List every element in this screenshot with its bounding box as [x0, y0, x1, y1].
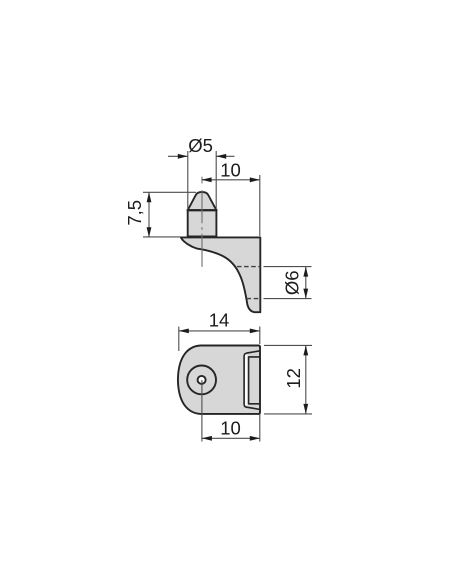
- svg-text:10: 10: [220, 417, 241, 438]
- arrowhead O6 up: [303, 267, 308, 277]
- dimension 7,5: extension + dimension lines: [143, 192, 196, 237]
- svg-text:Ø6: Ø6: [282, 270, 303, 295]
- arrowhead 10 top right: [250, 177, 260, 182]
- cone base line: [187, 209, 218, 211]
- dimension O5: extension + dimension lines: [168, 151, 235, 209]
- bracket body (side profile): [181, 237, 260, 312]
- dimension 14: extension + dimension lines: [179, 327, 260, 352]
- pin circle (top view): [187, 366, 216, 395]
- dimension 10 (bottom): extension + dimension lines: [202, 415, 260, 442]
- extension stub above pin: [201, 177, 203, 184]
- arrowhead 12 down: [303, 404, 308, 414]
- arrowhead O5 right: [216, 154, 226, 159]
- arrowhead 10 top left: [202, 177, 212, 182]
- pin centerline: [201, 190, 203, 267]
- arrowhead 14 left: [179, 329, 189, 334]
- arrowhead 12 up: [303, 345, 308, 355]
- arrowhead 10 bottom right: [250, 436, 260, 441]
- hidden line hole top: [237, 266, 260, 268]
- hidden line hole bottom: [247, 298, 261, 300]
- svg-text:Ø5: Ø5: [188, 135, 213, 156]
- svg-text:7,5: 7,5: [124, 200, 145, 226]
- dimension 12: extension + dimension lines: [264, 345, 312, 414]
- arrowhead O6 down: [303, 289, 308, 299]
- arrowhead 7,5 up: [147, 192, 152, 202]
- svg-text:14: 14: [209, 310, 230, 331]
- tab outer silhouette: [244, 351, 260, 410]
- dimension O6: extension + dimension lines: [264, 267, 312, 299]
- dimension 10 (top): extension + dimension lines: [202, 175, 260, 236]
- svg-text:12: 12: [283, 368, 304, 389]
- pin cylinder: [188, 210, 217, 236]
- pin cone tip: [188, 192, 217, 210]
- arrowhead 7,5 down: [147, 227, 152, 237]
- arrowhead 14 right: [250, 329, 260, 334]
- arrowhead O5 left: [178, 154, 188, 159]
- pin tip circle: [198, 376, 206, 384]
- tab white band: [245, 355, 247, 406]
- tab inner edge: [249, 357, 260, 404]
- body (top view, rounded left): [178, 346, 260, 414]
- center extension line: [201, 380, 203, 442]
- arrowhead 10 bottom left: [202, 436, 212, 441]
- svg-text:10: 10: [220, 160, 241, 181]
